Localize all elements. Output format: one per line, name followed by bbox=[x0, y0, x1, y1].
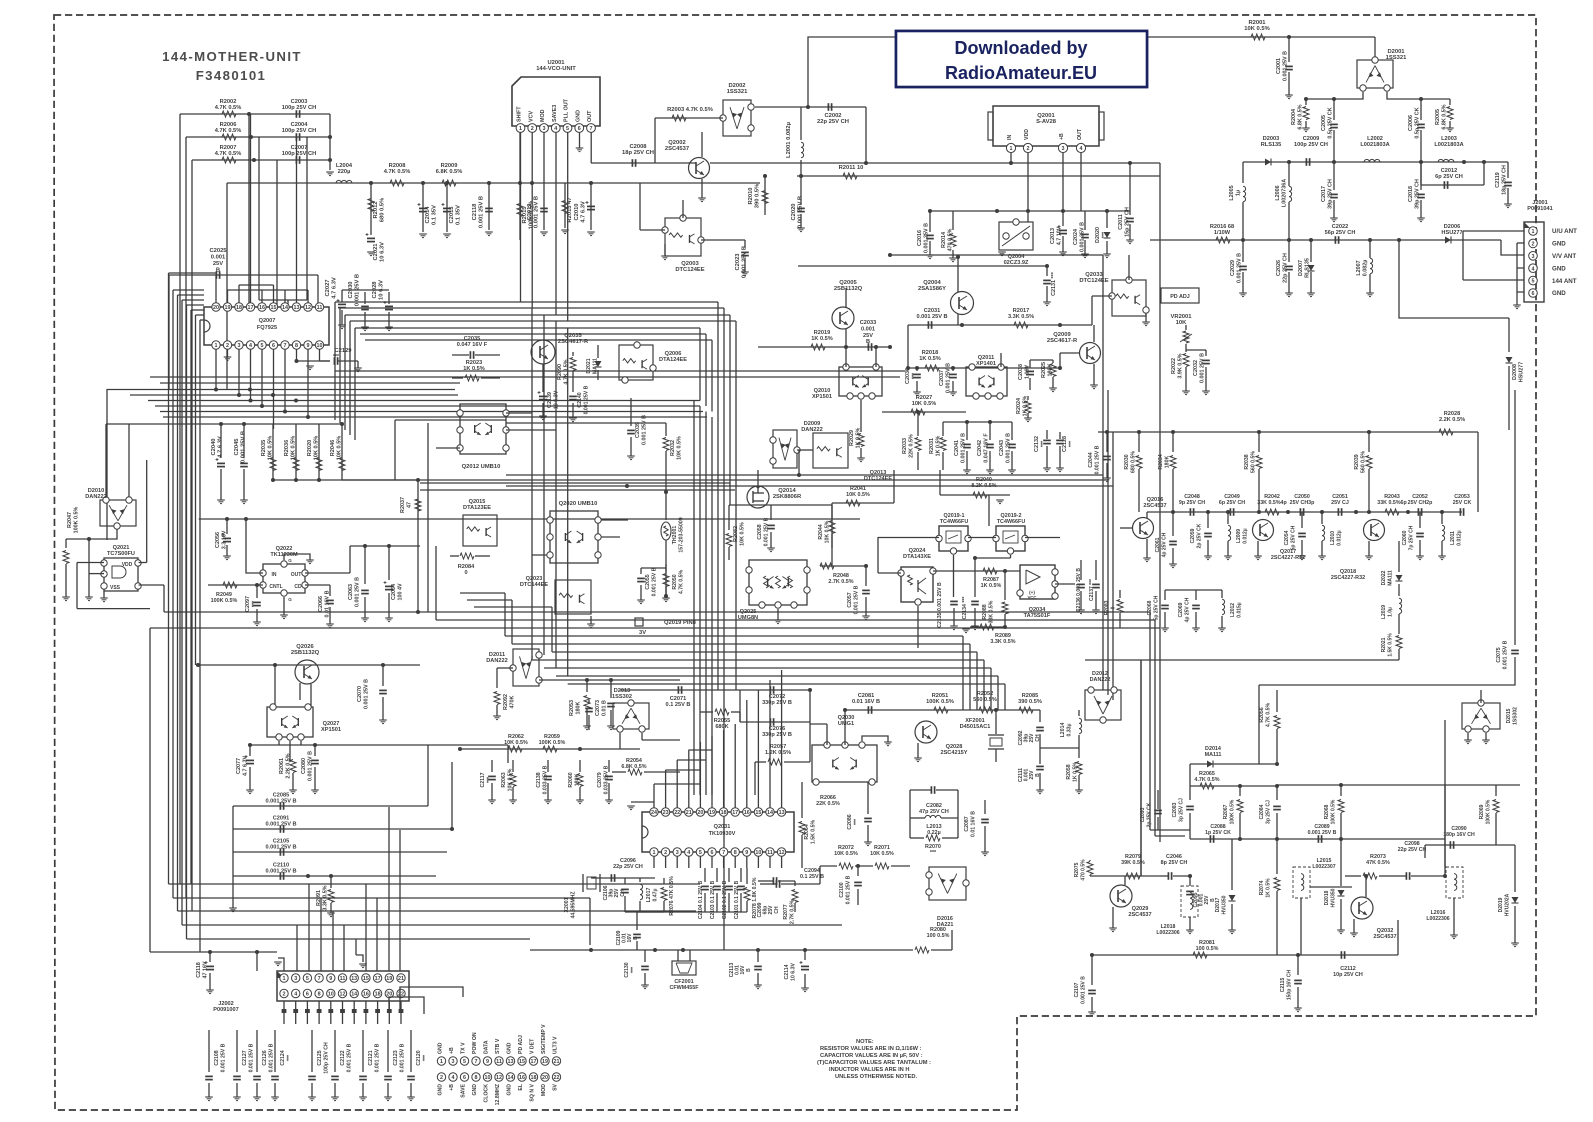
svg-text:Q2014: Q2014 bbox=[778, 488, 796, 494]
wire bottom y955 bbox=[1090, 954, 1398, 956]
inductor L2018 L0022306 bbox=[1181, 886, 1198, 917]
transistor Q2018 2SC4227-R32 bbox=[1364, 520, 1385, 541]
wire Q2001 pin3 down bbox=[1062, 153, 1064, 211]
svg-text:G: G bbox=[288, 558, 292, 563]
svg-text:Q2015: Q2015 bbox=[469, 499, 486, 505]
legend pin 12 bbox=[495, 1073, 503, 1081]
inductor L2002 bbox=[1364, 159, 1380, 162]
pin 3 bbox=[292, 974, 300, 982]
svg-text:R2039: R2039 bbox=[1354, 454, 1360, 469]
svg-text:R2076 47K 0.5%: R2076 47K 0.5% bbox=[669, 876, 675, 916]
capacitor C2071 bbox=[677, 686, 679, 694]
svg-text:XP1501: XP1501 bbox=[321, 727, 341, 733]
wire Q2024 bottom bbox=[917, 606, 919, 648]
svg-text:R2079: R2079 bbox=[1125, 854, 1141, 860]
svg-text:Q2018: Q2018 bbox=[1340, 569, 1356, 575]
svg-text:C2135 0.001 25V B: C2135 0.001 25V B bbox=[937, 582, 943, 628]
capacitor C2090 bbox=[1425, 844, 1496, 846]
capacitor C2045 bbox=[243, 424, 245, 458]
svg-text:L2012: L2012 bbox=[1230, 603, 1236, 617]
capacitor C2016 bbox=[929, 211, 931, 232]
IC Q2019-2 TC4W66FU bbox=[996, 526, 1025, 551]
svg-text:4.7K 0.5%: 4.7K 0.5% bbox=[384, 169, 411, 175]
svg-text:0.01 16V B: 0.01 16V B bbox=[970, 811, 976, 837]
svg-text:D2017: D2017 bbox=[1215, 897, 1221, 912]
svg-text:10K 0.5%: 10K 0.5% bbox=[676, 436, 682, 460]
transistor Q2002 2SC4537 bbox=[689, 158, 710, 179]
svg-text:0.001 25V B: 0.001 25V B bbox=[240, 431, 246, 463]
diode D2003 RLS135 bbox=[1265, 159, 1271, 166]
svg-text:0.01 16V B: 0.01 16V B bbox=[852, 699, 880, 705]
capacitor C2080 bbox=[314, 745, 316, 756]
svg-text:SAVE: SAVE bbox=[461, 1083, 467, 1097]
ground Q2023 bbox=[590, 616, 592, 624]
capacitor C2099 bbox=[772, 877, 774, 885]
wire mid bus bbox=[556, 675, 998, 677]
svg-text:C2014: C2014 bbox=[425, 206, 431, 224]
svg-text:C2054: C2054 bbox=[1284, 530, 1290, 545]
capacitor C2010 bbox=[590, 183, 592, 230]
svg-text:B: B bbox=[216, 268, 220, 274]
svg-text:C2040: C2040 bbox=[211, 438, 217, 455]
part C2051 bbox=[1337, 508, 1339, 516]
wire staircase top bbox=[355, 327, 700, 329]
svg-text:G: G bbox=[288, 597, 292, 602]
svg-text:02CZ3.9Z: 02CZ3.9Z bbox=[1004, 260, 1029, 266]
capacitor C2085 bbox=[233, 805, 428, 807]
svg-text:DAN222: DAN222 bbox=[486, 658, 507, 664]
resistor R2014 bbox=[952, 211, 954, 230]
resistor R2004 bbox=[1305, 99, 1307, 105]
capacitor C2139 bbox=[542, 364, 544, 392]
svg-text:+B: +B bbox=[449, 1047, 455, 1054]
wire C2012 line bbox=[1420, 162, 1422, 185]
wire connector tail bbox=[353, 1001, 355, 1009]
wire Q2030 top feeds bbox=[844, 710, 846, 745]
svg-text:R2068: R2068 bbox=[1324, 804, 1330, 819]
capacitor C2086 bbox=[867, 782, 869, 814]
wire staircase top bbox=[365, 339, 712, 341]
diode D2007 RLS135 bbox=[1310, 240, 1312, 262]
wire bottom bus row bbox=[173, 897, 590, 899]
svg-text:0.001 25V B: 0.001 25V B bbox=[583, 385, 589, 414]
svg-text:390 0.5%: 390 0.5% bbox=[754, 184, 760, 209]
wire C2068 top rail bbox=[1165, 589, 1222, 591]
svg-text:CFWM455F: CFWM455F bbox=[669, 985, 699, 991]
svg-text:0.001 25V B: 0.001 25V B bbox=[265, 822, 296, 828]
svg-text:C2066: C2066 bbox=[318, 596, 324, 612]
svg-text:3.3K 0.5%: 3.3K 0.5% bbox=[1008, 314, 1034, 320]
svg-text:4.7 6.3V: 4.7 6.3V bbox=[217, 436, 223, 458]
wire bus line 2 bbox=[130, 394, 458, 396]
svg-text:L2006: L2006 bbox=[1275, 185, 1281, 200]
wire right bus bbox=[1154, 620, 1156, 836]
resistor R2006 bbox=[222, 134, 236, 140]
svg-text:CH: CH bbox=[1035, 734, 1041, 742]
resistor R2082 bbox=[728, 505, 730, 530]
svg-text:CF2001: CF2001 bbox=[674, 979, 693, 985]
svg-text:21: 21 bbox=[398, 976, 404, 982]
ground Q2031 pin24 bbox=[627, 805, 635, 807]
ground Q2033 bbox=[1145, 314, 1147, 322]
diode D2006 HSU277 bbox=[1445, 237, 1451, 244]
svg-text:144 ANT: 144 ANT bbox=[1552, 278, 1577, 285]
svg-text:C2082: C2082 bbox=[926, 803, 942, 809]
svg-text:GND: GND bbox=[575, 110, 581, 122]
svg-text:6.8K 0.5%: 6.8K 0.5% bbox=[1441, 104, 1447, 129]
wire Q2032 collector bbox=[1365, 876, 1367, 897]
svg-text:CLOCK: CLOCK bbox=[484, 1084, 490, 1103]
wire rf output risers bbox=[1258, 685, 1260, 764]
svg-text:390 0.5%: 390 0.5% bbox=[1018, 699, 1042, 705]
resistor R2028 bbox=[1439, 429, 1453, 435]
svg-text:C2121: C2121 bbox=[368, 1050, 374, 1065]
svg-text:180K: 180K bbox=[574, 774, 580, 787]
wire Q2032 emitter riser bbox=[1397, 920, 1399, 955]
capacitor C2031 bbox=[927, 321, 929, 329]
pin 14 bbox=[766, 808, 774, 816]
svg-text:TH2001: TH2001 bbox=[672, 526, 678, 545]
svg-text:***: *** bbox=[251, 600, 257, 607]
svg-text:0.001 25V B: 0.001 25V B bbox=[641, 415, 647, 445]
svg-text:R2038: R2038 bbox=[1244, 454, 1250, 469]
wire Q2009 base bbox=[1060, 352, 1080, 354]
svg-text:11: 11 bbox=[340, 976, 346, 982]
svg-text:100 4V: 100 4V bbox=[397, 583, 403, 600]
wire mid bus bbox=[552, 651, 977, 653]
svg-text:R2053: R2053 bbox=[569, 700, 575, 716]
pin 4 SAVE3 bbox=[551, 124, 560, 133]
legend pin 3 bbox=[449, 1057, 457, 1065]
capacitor C2135 bbox=[950, 600, 958, 602]
svg-text:20: 20 bbox=[213, 305, 219, 311]
wire y368 row bbox=[908, 367, 1060, 369]
svg-text:3: 3 bbox=[543, 126, 546, 132]
IC Q2031 TK10930V bbox=[642, 812, 794, 852]
svg-text:0.047 16V F: 0.047 16V F bbox=[457, 342, 488, 348]
svg-text:1: 1 bbox=[653, 850, 656, 856]
svg-text:DAN222: DAN222 bbox=[801, 427, 822, 433]
svg-text:220µ: 220µ bbox=[338, 169, 351, 175]
resistor R2005 bbox=[1449, 99, 1451, 105]
svg-text:4.7 6.3V: 4.7 6.3V bbox=[331, 277, 337, 299]
svg-text:3p 25V CJ: 3p 25V CJ bbox=[1265, 800, 1271, 824]
capacitor C2136 bbox=[1080, 560, 1082, 580]
svg-text:10K 0.5%: 10K 0.5% bbox=[912, 401, 937, 407]
wire row R2007 bbox=[192, 159, 330, 161]
svg-text:C2088: C2088 bbox=[1210, 824, 1225, 830]
wire Q2003 base left bbox=[640, 229, 665, 231]
svg-text:1.5K 0.5%: 1.5K 0.5% bbox=[1387, 633, 1393, 657]
svg-text:47p 25V CH: 47p 25V CH bbox=[919, 809, 949, 815]
wire bank bottom to right bbox=[342, 479, 418, 481]
wire Q2005 collector/emitter bbox=[845, 288, 847, 307]
pin 22 bbox=[397, 989, 405, 997]
svg-text:C2110: C2110 bbox=[273, 863, 289, 869]
svg-text:D2012: D2012 bbox=[1092, 671, 1108, 677]
svg-text:0.001 25V B: 0.001 25V B bbox=[1094, 445, 1100, 474]
inductor L2011 bbox=[1441, 512, 1443, 524]
svg-text:0.001 25V B: 0.001 25V B bbox=[1079, 222, 1085, 252]
svg-text:GND: GND bbox=[472, 1084, 478, 1096]
svg-text:4.7 6.3V: 4.7 6.3V bbox=[580, 201, 586, 223]
svg-text:ULT3 V: ULT3 V bbox=[553, 1036, 559, 1054]
svg-text:R2021: R2021 bbox=[1381, 637, 1387, 652]
ground L2004 input bbox=[326, 171, 334, 173]
pin 8 bbox=[731, 848, 739, 856]
resistor R2089 bbox=[970, 626, 1005, 628]
svg-text:RadioAmateur.EU: RadioAmateur.EU bbox=[945, 63, 1097, 83]
resistor R2070 bbox=[926, 835, 940, 841]
svg-text:2: 2 bbox=[664, 850, 667, 856]
svg-text:R2074: R2074 bbox=[1259, 880, 1265, 895]
svg-text:18: 18 bbox=[721, 810, 727, 816]
wire Q2022 out right bbox=[305, 572, 350, 574]
svg-text:C2037: C2037 bbox=[939, 370, 945, 386]
capacitor C2089 bbox=[1277, 838, 1445, 840]
capacitor C2028 bbox=[388, 292, 390, 304]
svg-text:C2117: C2117 bbox=[480, 772, 486, 787]
svg-text:4: 4 bbox=[1080, 146, 1083, 152]
wire staircase verticals bbox=[334, 302, 336, 420]
diode D2015 1SS302 bbox=[1462, 703, 1500, 729]
svg-text:SQ N V: SQ N V bbox=[530, 1083, 536, 1101]
pin 4 bbox=[292, 989, 300, 997]
svg-text:2.7K 0.5%: 2.7K 0.5% bbox=[828, 579, 853, 585]
svg-text:6: 6 bbox=[306, 992, 309, 998]
wire Q2014 drain bbox=[757, 470, 759, 486]
svg-text:13: 13 bbox=[351, 976, 357, 982]
part R2043 bbox=[1385, 509, 1399, 515]
svg-text:C2084: C2084 bbox=[1259, 804, 1265, 819]
svg-text:R2075: R2075 bbox=[1074, 862, 1080, 877]
svg-text:GND: GND bbox=[1552, 241, 1566, 248]
pin 16 bbox=[743, 808, 751, 816]
svg-text:TK10930V: TK10930V bbox=[709, 831, 736, 837]
svg-text:VCV: VCV bbox=[528, 111, 534, 122]
svg-text:14: 14 bbox=[767, 810, 773, 816]
svg-text:0.015µ: 0.015µ bbox=[1236, 602, 1242, 618]
wire D2009-Q2013 bbox=[797, 449, 813, 451]
capacitor C2104 bbox=[704, 868, 706, 882]
legend pin 15 bbox=[518, 1057, 526, 1065]
wire staircase top bbox=[350, 320, 736, 322]
svg-text:SAVE3: SAVE3 bbox=[552, 105, 558, 122]
diode D2021 MA111 bbox=[597, 345, 599, 358]
svg-text:***: *** bbox=[911, 372, 917, 379]
svg-text:39p 25V CH: 39p 25V CH bbox=[1414, 179, 1420, 209]
svg-text:P0091041: P0091041 bbox=[1527, 206, 1553, 212]
svg-text:0.001 25V B: 0.001 25V B bbox=[853, 585, 859, 614]
inductor L2005 bbox=[1243, 186, 1246, 202]
svg-text:3.3K 0.5%: 3.3K 0.5% bbox=[322, 885, 328, 910]
resistor R2085 bbox=[1019, 707, 1033, 713]
svg-text:8: 8 bbox=[734, 850, 737, 856]
legend pin 19 bbox=[541, 1057, 549, 1065]
wire central bus bbox=[711, 417, 713, 795]
pin 11 bbox=[338, 974, 346, 982]
part C2117 bbox=[491, 760, 493, 772]
wire Q2021 in left bbox=[77, 562, 104, 564]
capacitor C2112 bbox=[1340, 951, 1342, 959]
wire main VCO line bbox=[227, 182, 760, 184]
svg-text:0.33µ: 0.33µ bbox=[1066, 723, 1072, 736]
svg-text:9p 25V CH: 9p 25V CH bbox=[1179, 500, 1205, 506]
svg-text:R2081: R2081 bbox=[1199, 940, 1215, 946]
svg-text:0.001 25V B: 0.001 25V B bbox=[1282, 51, 1288, 81]
capacitor C2110 bbox=[233, 875, 436, 877]
svg-text:19: 19 bbox=[225, 305, 231, 311]
pin 12 bbox=[338, 989, 346, 997]
svg-text:0.1 35V: 0.1 35V bbox=[431, 205, 437, 225]
svg-text:Q2012 UMB10: Q2012 UMB10 bbox=[462, 464, 501, 470]
capacitor C2032 bbox=[1205, 350, 1207, 356]
wire bus line 3 bbox=[148, 400, 700, 402]
capacitor C2069 bbox=[1195, 590, 1197, 600]
svg-text:2p 25V CK: 2p 25V CK bbox=[1146, 802, 1152, 827]
svg-text:Q2005: Q2005 bbox=[839, 280, 857, 286]
svg-text:10K 0.5%: 10K 0.5% bbox=[267, 436, 273, 461]
inductor L2004 bbox=[336, 180, 352, 183]
legend pin 8 bbox=[472, 1073, 480, 1081]
svg-text:C2070: C2070 bbox=[357, 686, 363, 702]
svg-text:C2056: C2056 bbox=[215, 532, 221, 548]
resistor R2016 68 1/10W bbox=[1216, 237, 1230, 243]
inductor L2001 bbox=[800, 107, 802, 140]
svg-text:C2039: C2039 bbox=[635, 422, 641, 438]
svg-text:0.001 25V B: 0.001 25V B bbox=[533, 196, 539, 228]
svg-text:4.7K 0.5%: 4.7K 0.5% bbox=[1194, 777, 1219, 783]
pin 23 bbox=[661, 808, 669, 816]
pin 13 bbox=[292, 303, 300, 311]
svg-text:C2004: C2004 bbox=[291, 122, 309, 128]
svg-text:15: 15 bbox=[755, 810, 761, 816]
svg-text:2SB1132Q: 2SB1132Q bbox=[834, 286, 863, 292]
svg-text:0.01 B: 0.01 B bbox=[601, 700, 607, 716]
svg-text:R2014: R2014 bbox=[941, 232, 947, 248]
svg-text:R2080: R2080 bbox=[930, 927, 946, 933]
svg-text:L2009: L2009 bbox=[1236, 529, 1242, 543]
resistor R2067 bbox=[1239, 786, 1241, 796]
svg-text:DAN222: DAN222 bbox=[85, 494, 106, 500]
svg-text:C2140: C2140 bbox=[577, 392, 583, 407]
svg-text:C2022: C2022 bbox=[1332, 224, 1348, 230]
capacitor C2128 bbox=[1056, 439, 1064, 441]
wire staircase top bbox=[360, 333, 706, 335]
wire right side vertical bbox=[1477, 432, 1479, 512]
wire right bus bbox=[1149, 612, 1151, 830]
wire left bus bbox=[181, 300, 183, 925]
part R2063 bbox=[512, 760, 514, 772]
svg-text:2: 2 bbox=[531, 126, 534, 132]
svg-text:2SC4215Y: 2SC4215Y bbox=[940, 750, 967, 756]
svg-text:R2030: R2030 bbox=[1124, 454, 1130, 469]
svg-text:10K 0.5%: 10K 0.5% bbox=[870, 851, 894, 857]
svg-text:25V CK: 25V CK bbox=[1453, 500, 1472, 506]
pin 11 bbox=[766, 848, 774, 856]
svg-text:100p 25V CH: 100p 25V CH bbox=[1294, 142, 1328, 148]
svg-text:C2069: C2069 bbox=[1178, 602, 1184, 617]
svg-text:C2075: C2075 bbox=[1496, 647, 1502, 662]
wire connector tail bbox=[342, 1001, 344, 1009]
svg-text:R2012: R2012 bbox=[373, 201, 379, 218]
svg-text:C2033: C2033 bbox=[860, 320, 876, 326]
svg-text:1 16V: 1 16V bbox=[1024, 365, 1030, 379]
diode D2002 1SS321 bbox=[723, 100, 751, 136]
capacitor C2105 bbox=[233, 851, 447, 853]
part C2049 bbox=[1229, 508, 1231, 516]
svg-text:3: 3 bbox=[452, 1059, 455, 1065]
pin 24 bbox=[650, 808, 658, 816]
capacitor C2057 bbox=[864, 564, 868, 568]
transistor Q2015 DTA123EE bbox=[463, 515, 497, 546]
ground Q2022 bottom G bbox=[283, 597, 285, 615]
svg-text:1: 1 bbox=[283, 976, 286, 982]
wire y420 pair bbox=[395, 419, 506, 421]
svg-text:25V CH2p: 25V CH2p bbox=[1408, 500, 1433, 506]
svg-text:C2009: C2009 bbox=[1303, 136, 1319, 142]
wire risers from chain bbox=[1140, 660, 1142, 876]
svg-text:0.012µ: 0.012µ bbox=[1456, 530, 1462, 546]
svg-text:POW ON: POW ON bbox=[472, 1032, 478, 1054]
svg-text:OUT: OUT bbox=[1077, 128, 1083, 140]
svg-text:10K 0.5%: 10K 0.5% bbox=[1244, 26, 1269, 32]
wires Q2031 bottom pins down bbox=[653, 856, 655, 868]
wire Q2034 out bbox=[1055, 583, 1075, 585]
svg-text:SV: SV bbox=[553, 1083, 559, 1090]
wire bottom bus row bbox=[187, 938, 531, 940]
wire J2001 pin1 bbox=[1463, 230, 1524, 232]
wire D2002 top to C2002 bbox=[755, 106, 866, 108]
svg-text:PD ADJ: PD ADJ bbox=[518, 1035, 524, 1054]
svg-text:4: 4 bbox=[1532, 266, 1535, 272]
resistor R2029 bbox=[860, 400, 862, 432]
IC Q2001 S-AV28 power module bbox=[993, 106, 1099, 146]
wire L2015 tap right bbox=[1310, 886, 1352, 888]
svg-text:12: 12 bbox=[340, 992, 346, 998]
wire long y785 bbox=[1277, 784, 1520, 786]
resistor R2025 bbox=[1050, 364, 1056, 377]
svg-text:DTA123EE: DTA123EE bbox=[463, 505, 491, 511]
ground pin2 bbox=[227, 349, 229, 357]
IC Q2021 TC7S00FU bbox=[104, 558, 138, 591]
svg-text:D2020: D2020 bbox=[1095, 227, 1101, 243]
svg-text:15: 15 bbox=[363, 976, 369, 982]
diode D2010 DAN222 bbox=[100, 500, 136, 526]
pin 6 bbox=[708, 848, 716, 856]
svg-text:17: 17 bbox=[248, 305, 254, 311]
svg-text:R2047: R2047 bbox=[67, 512, 73, 528]
wire connector tail bbox=[377, 1001, 379, 1009]
pin 2 bbox=[223, 341, 231, 349]
svg-text:UNLESS OTHERWISE NOTED.: UNLESS OTHERWISE NOTED. bbox=[835, 1074, 917, 1080]
svg-text:R2036: R2036 bbox=[284, 440, 290, 456]
capacitor C2129 bbox=[333, 357, 335, 365]
svg-text:TC4W66FU: TC4W66FU bbox=[997, 519, 1026, 525]
wire top rail y432 bbox=[1098, 431, 1478, 433]
svg-text:12: 12 bbox=[305, 305, 311, 311]
part C2048 bbox=[1189, 508, 1191, 516]
svg-text:C2079: C2079 bbox=[597, 772, 603, 787]
diode D2016 DA221 bbox=[929, 867, 966, 900]
svg-text:5: 5 bbox=[261, 343, 264, 349]
svg-text:C2061: C2061 bbox=[1155, 537, 1161, 552]
svg-text:0.001 25V B: 0.001 25V B bbox=[1005, 433, 1011, 463]
svg-text:10K 0.5%: 10K 0.5% bbox=[824, 520, 830, 543]
capacitor C2025 bbox=[169, 274, 318, 276]
wire J2001 pin5 bbox=[1463, 279, 1524, 281]
svg-text:10K 0.5%: 10K 0.5% bbox=[336, 436, 342, 461]
